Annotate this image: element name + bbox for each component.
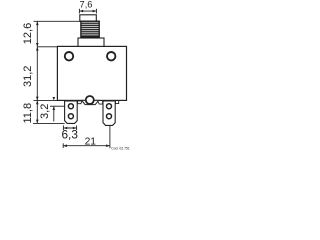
dimension 7,6 (cap width): [79, 9, 96, 14]
extension line body bottom to dim chain: [34, 99, 58, 101]
dimension 3,2 (hole offset): [50, 97, 65, 122]
left terminal tab: [65, 101, 78, 124]
right tab upper hole: [107, 104, 112, 109]
svg-text:6,3: 6,3: [61, 127, 78, 141]
upper body hole left: [65, 52, 73, 60]
knurled button knob (hatched): [81, 21, 99, 37]
svg-text:3,2: 3,2: [39, 104, 51, 119]
dimension 12,6 (button height): [36, 21, 39, 47]
dimension 31,2 (body height): [36, 47, 39, 101]
svg-text:31,2: 31,2: [22, 66, 34, 87]
push button cap: [80, 15, 97, 21]
right tab lower hole: [107, 114, 112, 119]
left terminal tab step: [78, 101, 83, 104]
svg-text:21: 21: [85, 136, 97, 147]
dimension 21 (overall width): [63, 126, 110, 149]
extension line tab bottom to dim chain: [33, 122, 65, 124]
mounting flange / bushing: [78, 38, 104, 47]
extension line body top to dim chain: [37, 46, 57, 48]
svg-text:11,8: 11,8: [22, 103, 34, 124]
left tab upper hole: [68, 104, 73, 109]
svg-text:Cod. 02.751: Cod. 02.751: [111, 147, 130, 150]
dimension 6,3 (tab width): [63, 125, 76, 130]
extension line knob top (12,6 upper): [34, 20, 81, 22]
upper body hole right: [107, 52, 115, 60]
svg-text:12,6: 12,6: [22, 23, 34, 44]
center boss (omega lug): [82, 96, 99, 105]
right terminal tab inner step: [98, 101, 103, 104]
svg-text:7,6: 7,6: [80, 0, 93, 10]
breaker body: [57, 46, 126, 100]
dimension 11,8 (tab length): [36, 100, 39, 123]
right terminal tab outer step: [115, 101, 118, 104]
left tab lower hole: [68, 114, 73, 119]
right terminal tab: [103, 101, 115, 126]
